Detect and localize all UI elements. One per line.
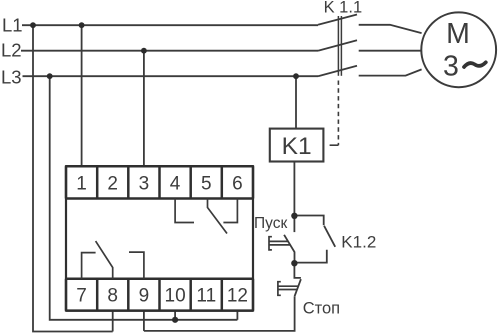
svg-text:12: 12 (227, 286, 248, 307)
svg-text:Пуск: Пуск (254, 215, 287, 232)
svg-text:5: 5 (201, 173, 212, 194)
svg-text:L2: L2 (1, 39, 22, 60)
svg-text:9: 9 (139, 286, 150, 307)
svg-text:6: 6 (232, 173, 243, 194)
svg-text:4: 4 (170, 173, 181, 194)
svg-text:3: 3 (443, 51, 459, 83)
svg-text:M: M (446, 18, 470, 50)
svg-text:K1: K1 (282, 133, 312, 160)
svg-text:3: 3 (139, 173, 150, 194)
svg-text:L3: L3 (1, 67, 22, 88)
svg-text:Стоп: Стоп (303, 299, 340, 317)
svg-text:K 1.1: K 1.1 (324, 0, 363, 16)
svg-text:2: 2 (107, 173, 118, 194)
svg-text:7: 7 (76, 286, 87, 307)
svg-text:10: 10 (165, 286, 186, 307)
svg-text:1: 1 (76, 173, 87, 194)
svg-text:K1.2: K1.2 (341, 233, 376, 252)
svg-text:11: 11 (196, 286, 216, 307)
svg-text:L1: L1 (2, 14, 23, 35)
svg-text:8: 8 (107, 286, 118, 307)
